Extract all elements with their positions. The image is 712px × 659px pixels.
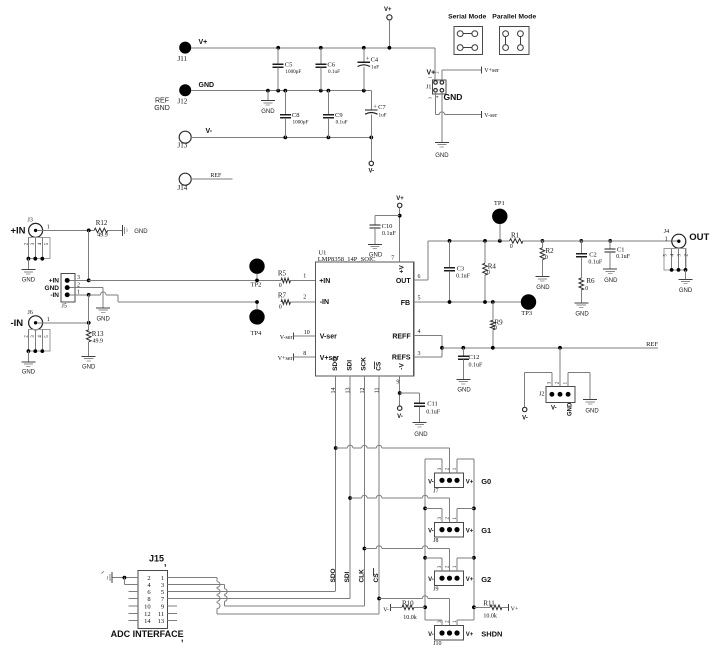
terminal V+ top [384,7,392,48]
svg-text:REFS: REFS [392,355,411,362]
svg-text:0.1uF: 0.1uF [588,259,603,265]
jumper J8 (G1) [425,508,491,543]
resistor R5 0 [278,270,291,289]
svg-text:V-: V- [428,632,434,638]
svg-text:V-: V- [522,415,528,421]
capacitor C8 1000pF [280,91,309,138]
svg-text:1000pF: 1000pF [293,119,309,125]
svg-text:-V: -V [399,363,406,370]
svg-text:OUT: OUT [689,232,709,243]
svg-text:R11: R11 [483,599,495,607]
ground J5 pin2 [96,308,110,322]
wire U1 OUT to rail [414,241,510,280]
svg-text:-IN: -IN [50,292,59,299]
wire U1 pin9 to V- [398,376,402,406]
resistor R6 0 [579,277,595,303]
svg-text:10: 10 [144,604,151,611]
svg-text:1: 1 [665,236,668,242]
terminal V- at pin9 [397,406,403,420]
svg-text:R2: R2 [546,247,555,255]
node GND rail junctions [266,89,366,93]
svg-text:OUT: OUT [396,278,412,285]
svg-text:SDI: SDI [346,360,353,371]
connector J3 (+IN BNC) [11,218,50,238]
connector J14 (REF input) [178,173,192,192]
wire CS vertical [377,376,381,614]
label REF GND [154,97,170,112]
jumper J10 (SHDN) [425,620,502,647]
diagram Parallel Mode jumper setting [492,13,536,54]
wire U1 pin7 to V+ terminal [396,196,404,262]
svg-text:G0: G0 [481,477,491,486]
wire U1 FB line [414,300,521,304]
svg-text:6: 6 [418,274,421,280]
wire J3 to R12 [43,229,95,231]
svg-text:0.1uF: 0.1uF [426,410,441,416]
svg-text:TP2: TP2 [251,282,262,289]
label SDO SDI CLK CS nets [330,568,380,582]
svg-text:9: 9 [396,379,399,385]
svg-text:GND: GND [679,288,693,294]
svg-text:6: 6 [147,589,151,596]
svg-text:11: 11 [158,611,164,618]
jumper J7 (G0) [425,459,491,495]
svg-text:C1: C1 [617,246,625,253]
svg-text:GND: GND [261,109,275,115]
connector J2 (REF select header) [539,381,575,416]
svg-text:J5: J5 [62,304,67,310]
svg-text:GND: GND [435,153,449,159]
svg-text:4: 4 [418,329,421,335]
resistor R10 10.0k [390,599,425,621]
svg-text:C8: C8 [292,112,300,119]
svg-text:J13: J13 [178,142,188,150]
wire R12 to gnd [108,229,123,231]
svg-text:J1: J1 [426,85,431,91]
svg-text:+: + [373,103,377,110]
wire J15 pin7 to SDI [167,598,350,600]
svg-text:J14: J14 [178,184,188,192]
svg-text:C12: C12 [469,354,480,361]
svg-text:R1: R1 [511,231,520,239]
ground below J6 [21,351,35,375]
svg-text:V-: V- [428,479,434,485]
svg-text:C2: C2 [589,252,597,259]
svg-text:0.1uF: 0.1uF [456,274,471,280]
svg-text:R6: R6 [586,277,595,285]
svg-text:5: 5 [45,335,50,338]
svg-text:G1: G1 [481,526,491,535]
wire J1 pin3 to V-ser [436,92,482,115]
ground below J3 [21,259,35,284]
svg-text:,: , [164,558,167,568]
terminal V- bottom [368,137,374,174]
wire GND rail [191,90,371,92]
wire REF stub from J14 [191,173,232,179]
svg-text:SCK: SCK [361,357,368,371]
connector J11 (V+ input) [178,39,208,63]
svg-text:V-ser: V-ser [280,335,293,341]
svg-text:J4: J4 [664,229,669,235]
wire J15 pin5 to SDO [167,591,335,593]
svg-text:4: 4 [147,582,151,589]
svg-text:V-: V- [206,128,213,135]
svg-text:C7: C7 [378,104,386,111]
svg-text:R7: R7 [278,292,287,300]
svg-text:0: 0 [510,244,513,250]
svg-text:GND: GND [22,278,36,284]
capacitor C3 0.1uF [444,241,471,302]
capacitor C1 0.1uF [605,241,631,269]
svg-text:GND: GND [22,370,36,376]
wire SDI vertical [348,376,352,599]
svg-text:14: 14 [331,388,337,394]
svg-text:C6: C6 [327,61,335,68]
connector J4 shield pins [664,249,690,272]
svg-text:1: 1 [303,273,306,279]
svg-text:V-: V- [368,169,374,175]
svg-text:J12: J12 [178,98,188,106]
svg-text:J2: J2 [539,392,544,398]
svg-text:TP3: TP3 [521,310,532,317]
capacitor C7 1uF [365,91,387,138]
svg-text:3: 3 [161,582,164,589]
svg-text:V+ser: V+ser [278,356,293,362]
svg-text:0: 0 [585,286,588,292]
svg-text:1000pF: 1000pF [285,69,301,75]
testpoint TP3 [521,294,536,317]
svg-text:GND: GND [457,388,471,394]
svg-text:R5: R5 [278,270,287,278]
wire J15 pins 2,4 to ground [112,576,138,585]
ground below C10 [368,244,383,258]
svg-text:0: 0 [279,283,282,289]
wire J1 pin4 to ground [441,92,443,142]
capacitor C9 0.1uF [323,91,348,138]
svg-text:CLK: CLK [359,569,366,583]
wire SDO branch to J7 [336,445,450,473]
svg-text:J11: J11 [178,55,188,63]
svg-text:C5: C5 [285,61,293,68]
svg-text:SHDN: SHDN [481,630,502,639]
svg-text:C10: C10 [382,223,393,230]
svg-text:C3: C3 [457,265,465,272]
wire J5 pin1 to -IN line [70,292,258,302]
svg-text:FB: FB [401,300,410,307]
testpoint TP2 [249,259,264,289]
connector J6 (-IN BNC) [11,310,50,330]
svg-text:5: 5 [161,589,164,596]
resistor R11 10.0k [474,599,509,619]
wire V+ rail [191,48,435,81]
svg-text:1uF: 1uF [371,65,379,71]
svg-text:R12: R12 [96,219,108,227]
svg-text:1: 1 [47,317,50,323]
svg-text:V+: V+ [466,632,474,638]
svg-text:-IN: -IN [11,318,24,329]
svg-text:GND: GND [536,285,550,291]
resistor R7 0 [278,292,291,311]
capacitor C10 0.1uF [369,216,399,245]
resistor R13 49.9 [86,323,104,357]
svg-text:13: 13 [158,618,165,625]
svg-text:0.1uF: 0.1uF [328,69,340,75]
svg-text:11: 11 [375,388,381,394]
svg-text:V+: V+ [511,606,519,612]
ground left of J15 [102,571,113,583]
svg-text:0.1uF: 0.1uF [469,363,484,369]
svg-text:1: 1 [47,225,50,231]
ground at J2 [583,400,599,415]
svg-text:7: 7 [391,255,394,261]
ground below R13 [82,356,96,370]
svg-text:GND: GND [369,253,383,259]
svg-text:0: 0 [279,305,282,311]
wire CS branch to J10 [379,596,449,626]
svg-text:TP4: TP4 [251,330,263,337]
connector J15 (ADC interface header) [129,554,178,629]
port V+ser to U1 pin8 [278,354,316,362]
wire SCK vertical [363,376,367,606]
svg-text:49.9: 49.9 [93,339,104,345]
capacitor C12 0.1uF [458,348,483,380]
svg-text:V-: V- [551,406,557,412]
svg-text:ADC INTERFACE: ADC INTERFACE [111,629,184,639]
port V+ at R11 [509,604,519,613]
svg-text:LMP8358_14P_SOIC: LMP8358_14P_SOIC [318,256,376,263]
wire V+ rail of jumpers [472,459,476,620]
svg-text:12: 12 [144,611,151,618]
svg-text:2: 2 [303,294,306,300]
svg-text:V-: V- [383,607,389,613]
svg-text:1: 1 [428,77,433,79]
svg-text:12: 12 [360,388,366,394]
svg-text:C4: C4 [371,56,379,63]
svg-text:10: 10 [304,330,310,336]
svg-text:0: 0 [487,270,490,276]
ground below J4 [679,270,693,294]
resistor R4 0 [483,241,497,302]
svg-text:GND: GND [575,312,589,318]
capacitor C6 0.1uF [315,48,340,91]
wire J6 to junction [43,321,91,325]
svg-text:REF: REF [155,97,169,104]
svg-text:J9: J9 [433,586,438,592]
svg-text:5: 5 [418,296,421,302]
wire J1 pin2 to V+ser [442,70,482,81]
capacitor C5 1000pF [273,48,302,91]
svg-text:Parallel Mode: Parallel Mode [492,13,536,20]
svg-text:J10: J10 [433,641,441,647]
op-amp U1 LMP8358 [303,249,420,393]
svg-text:0.1uF: 0.1uF [336,119,348,125]
svg-text:REF: REF [646,341,658,348]
svg-text:14: 14 [144,618,151,625]
resistor R12 49.9 [94,219,108,239]
svg-text:GND: GND [199,82,215,89]
svg-text:V-: V- [428,529,434,535]
node V+ rail junctions [276,46,391,50]
label ADC INTERFACE [111,629,184,643]
svg-text:TP1: TP1 [494,200,505,207]
svg-text:+V: +V [399,265,406,274]
connector J5 (input select header) [45,273,80,309]
wire V- rail [191,136,373,140]
svg-text:J3: J3 [28,218,33,224]
resistor R1 0 [510,231,524,250]
capacitor C4 1uF [358,48,380,91]
wire -IN junction down to J6 [88,295,90,323]
svg-text:J15: J15 [149,554,164,564]
capacitor C11 0.1uF [400,393,441,422]
svg-text:10.0k: 10.0k [483,614,497,620]
resistor R2 0 [540,241,554,277]
diagram Serial Mode jumper setting [448,13,486,54]
svg-text:GND: GND [604,278,618,284]
connector J12 (GND input) [178,82,215,106]
svg-text:G2: G2 [481,575,491,584]
ground below C12 [456,379,471,393]
ground below C11 [413,422,429,437]
svg-text:GND: GND [97,316,111,322]
wire J5 pin2 to ground [70,288,104,308]
svg-text:V+: V+ [466,529,474,535]
svg-text:Serial Mode: Serial Mode [448,13,486,20]
connector J1 (2x2 header) [426,70,446,100]
svg-text:8: 8 [147,596,150,603]
svg-text:0.1uF: 0.1uF [616,254,631,260]
svg-text:GND: GND [444,92,463,102]
connector J6 shield pins [24,330,50,353]
wire SDI branch to J8 [350,495,449,522]
resistor R9 0 [491,302,504,348]
wire SDO vertical [334,376,338,591]
svg-text:REFF: REFF [392,333,411,340]
port V-ser [482,111,497,119]
svg-text:2: 2 [434,72,439,74]
wire +IN line to R5 [89,279,281,281]
ground below C1 [603,269,618,284]
wire J2 pin3 to V- [525,373,552,408]
node output rail junctions [448,239,612,243]
svg-text:V+: V+ [466,577,474,583]
wire R5 to U1 pin1 [291,279,316,281]
svg-text:V-ser: V-ser [320,333,337,340]
svg-text:9: 9 [161,604,164,611]
connector J4 (OUT BNC) [664,229,710,248]
wire R7 to U1 pin2 [291,301,316,303]
svg-text:0: 0 [545,255,548,261]
wire J5 pin3 to +IN node [70,279,91,283]
svg-text:REF: REF [210,173,222,179]
svg-text:V+: V+ [466,479,474,485]
wire REFF-REFS tie [414,335,444,357]
svg-text:3: 3 [428,97,433,99]
svg-text:J8: J8 [433,538,438,544]
svg-text:10.0k: 10.0k [403,615,417,621]
capacitor C2 0.1uF [576,241,603,278]
svg-text:8: 8 [303,351,306,357]
svg-text:+IN: +IN [49,278,60,285]
wire R1 to J4 [523,240,672,242]
port V- at R10 [383,604,390,614]
connector J3 shield pins [24,237,50,260]
testpoint TP4 [249,300,264,337]
wire J2 pin1 to gnd [568,373,590,400]
svg-text:-IN: -IN [320,299,329,306]
svg-text:+IN: +IN [11,226,26,237]
svg-text:+IN: +IN [319,278,330,285]
wire V- rail of jumpers [423,459,427,620]
ground below R2 [535,277,550,291]
svg-text:R10: R10 [402,599,414,607]
svg-text:C11: C11 [427,401,438,408]
svg-text:SDI: SDI [344,571,351,582]
testpoint TP1 [492,200,507,241]
wire REF net [442,341,658,349]
svg-text:GND: GND [45,285,60,292]
port V-ser to U1 pin10 [280,333,316,341]
jumper J9 (G2) [425,558,491,593]
svg-text:GND: GND [568,402,574,416]
ground right of R12 [122,225,148,236]
ground below R6 [574,303,589,318]
svg-text:7: 7 [161,596,165,603]
svg-text:V-: V- [397,414,403,420]
svg-text:GND: GND [82,365,96,371]
svg-text:SDO: SDO [332,357,339,371]
ground below J1 [435,142,449,159]
svg-text:GND: GND [134,229,148,235]
svg-text:1uF: 1uF [379,112,387,118]
svg-text:R13: R13 [92,330,104,338]
svg-text:13: 13 [346,388,352,394]
port V+ser [482,66,499,74]
wire SCK branch to J9 [364,546,449,571]
svg-text:V+: V+ [384,7,392,13]
wire J15 pin3 to CLK [167,584,364,605]
svg-text:GND: GND [585,409,599,415]
svg-text:V-: V- [428,577,434,583]
svg-text:,: , [181,633,184,643]
connector J13 (V- input) [178,128,213,150]
ground GND rail symbol [261,91,275,115]
svg-text:3: 3 [418,351,421,357]
svg-text:5: 5 [45,242,50,245]
svg-text:J6: J6 [28,310,33,316]
wire +IN down to J5 pin3 [87,229,91,281]
svg-text:GND: GND [414,432,428,438]
svg-text:V+ser: V+ser [484,68,499,74]
svg-text:0: 0 [494,326,497,332]
svg-text:0.1uF: 0.1uF [382,231,397,237]
svg-text:V+: V+ [396,196,404,202]
svg-text:CS: CS [376,361,383,371]
svg-text:+: + [366,56,370,63]
wire REF to J2 pin2 [559,348,561,387]
svg-text:49.9: 49.9 [97,233,108,239]
wire J15 pin1 to CS [167,578,379,614]
svg-text:GND: GND [154,105,170,112]
svg-text:V-ser: V-ser [484,113,497,119]
label GND at J1 [444,92,463,102]
svg-text:SDO: SDO [330,568,337,582]
svg-text:C9: C9 [335,112,343,119]
terminal V- at J2 [522,407,528,421]
svg-text:V+: V+ [199,39,208,46]
svg-text:J7: J7 [433,489,438,495]
